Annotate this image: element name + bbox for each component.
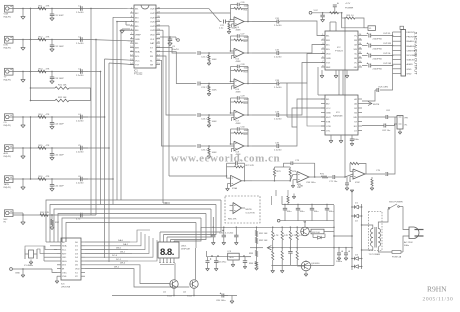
svg-text:C16 100P: C16 100P <box>54 186 64 188</box>
svg-text:5.1CH IN: 5.1CH IN <box>246 213 255 215</box>
svg-text:VCC: VCC <box>314 10 319 12</box>
svg-text:SR: SR <box>150 65 153 67</box>
svg-text:2005/11/30: 2005/11/30 <box>423 297 454 303</box>
svg-text:LO: LO <box>354 131 357 133</box>
svg-text:GD: GD <box>354 67 358 69</box>
svg-text:C202: C202 <box>228 233 234 235</box>
svg-text:VREF: VREF <box>135 35 141 37</box>
svg-text:SUB-W: SUB-W <box>407 60 415 62</box>
svg-text:C62 10u: C62 10u <box>382 130 391 132</box>
svg-text:VSS: VSS <box>62 276 67 278</box>
svg-text:OUT-SL: OUT-SL <box>383 53 392 55</box>
svg-text:OUT-FL: OUT-FL <box>383 33 392 35</box>
svg-text:IC8C: IC8C <box>355 182 360 184</box>
svg-text:DC-1: DC-1 <box>116 259 122 261</box>
svg-text:TAPE: TAPE <box>4 183 10 186</box>
svg-text:VDD: VDD <box>326 54 331 56</box>
svg-text:TST: TST <box>135 65 140 67</box>
svg-text:2.2u/50: 2.2u/50 <box>76 183 84 185</box>
svg-text:DIG: DIG <box>62 265 66 267</box>
svg-text:7805: 7805 <box>229 257 235 259</box>
svg-text:VC: VC <box>354 63 357 65</box>
svg-text:R9HN: R9HN <box>427 285 447 294</box>
svg-text:100u: 100u <box>329 211 335 213</box>
svg-text:DA-1: DA-1 <box>123 243 129 246</box>
svg-text:STB: STB <box>326 122 331 124</box>
svg-text:Q4 8050: Q4 8050 <box>311 263 320 265</box>
svg-text:IN(L/R): IN(L/R) <box>4 16 11 18</box>
svg-text:2.2u/50: 2.2u/50 <box>76 43 84 45</box>
svg-text:SDA: SDA <box>135 51 140 54</box>
svg-text:uPD6708: uPD6708 <box>61 287 71 289</box>
svg-text:C12 100P: C12 100P <box>54 46 64 48</box>
svg-text:4.7K: 4.7K <box>274 235 279 237</box>
svg-text:MU: MU <box>354 117 358 119</box>
svg-text:2.2u/50: 2.2u/50 <box>274 57 282 59</box>
svg-text:50Hz: 50Hz <box>404 245 409 247</box>
svg-text:R72 47K: R72 47K <box>246 165 255 167</box>
svg-text:2200P/50: 2200P/50 <box>373 39 383 41</box>
svg-text:GND: GND <box>326 58 331 60</box>
svg-text:2.2u/50: 2.2u/50 <box>76 75 84 77</box>
svg-text:SR: SR <box>354 58 357 60</box>
svg-text:IN(L/R): IN(L/R) <box>4 125 11 127</box>
svg-text:CE: CE <box>354 45 358 47</box>
svg-text:AUX: AUX <box>4 152 9 155</box>
svg-text:DA-0: DA-0 <box>118 239 124 242</box>
svg-text:OUT2: OUT2 <box>150 13 157 15</box>
svg-text:2200P/50: 2200P/50 <box>373 49 383 51</box>
svg-text:C15 100P: C15 100P <box>54 155 64 157</box>
svg-text:IN(L/R): IN(L/R) <box>4 187 11 189</box>
svg-text:OUT5: OUT5 <box>150 26 157 28</box>
svg-text:VDD: VDD <box>75 269 80 271</box>
svg-text:DAT: DAT <box>150 42 155 45</box>
svg-text:NJM2068: NJM2068 <box>333 116 343 118</box>
svg-text:GND: GND <box>407 73 412 75</box>
svg-text:IN(L/R): IN(L/R) <box>4 156 11 158</box>
svg-text:INR: INR <box>326 40 330 42</box>
svg-text:LED: LED <box>62 257 67 259</box>
svg-text:4558: 4558 <box>236 123 242 125</box>
svg-text:OUT3: OUT3 <box>150 17 157 19</box>
svg-text:2.2u/50: 2.2u/50 <box>76 12 84 14</box>
svg-text:4558: 4558 <box>236 91 242 93</box>
svg-text:RO: RO <box>354 126 358 128</box>
svg-text:47K: 47K <box>46 5 50 7</box>
svg-text:MUTE: MUTE <box>246 209 253 211</box>
svg-text:2.2u/50: 2.2u/50 <box>76 152 84 154</box>
svg-text:4.7K: 4.7K <box>284 235 289 237</box>
svg-text:OUT4: OUT4 <box>150 22 157 24</box>
svg-text:100u: 100u <box>300 211 306 213</box>
svg-text:100P: 100P <box>244 130 250 132</box>
svg-text:R21 10K: R21 10K <box>58 85 67 87</box>
svg-text:MUTE: MUTE <box>373 104 380 106</box>
svg-text:100u: 100u <box>354 139 360 141</box>
svg-text:100K: 100K <box>212 90 218 92</box>
svg-text:OUT-SR: OUT-SR <box>383 63 392 65</box>
svg-text:10K: 10K <box>297 187 301 189</box>
svg-text:PT2322: PT2322 <box>134 73 143 76</box>
svg-text:OUT1: OUT1 <box>150 9 157 11</box>
svg-text:R81 47K: R81 47K <box>228 219 237 221</box>
svg-text:DR-1: DR-1 <box>114 266 120 268</box>
svg-text:DISPLAY: DISPLAY <box>181 248 191 251</box>
svg-text:2.2u/50: 2.2u/50 <box>274 119 282 121</box>
svg-text:HR: HR <box>405 118 409 120</box>
svg-text:10u/16: 10u/16 <box>172 49 179 51</box>
svg-text:CLK: CLK <box>150 39 155 41</box>
svg-text:DB-1: DB-1 <box>120 251 126 253</box>
svg-text:GND: GND <box>135 39 140 41</box>
svg-text:INR: INR <box>135 47 139 49</box>
svg-text:www.eeworld.com.cn: www.eeworld.com.cn <box>171 153 280 165</box>
svg-text:GND: GND <box>326 113 331 115</box>
svg-text:DC-0: DC-0 <box>112 255 118 257</box>
svg-text:2200P/50: 2200P/50 <box>373 69 383 71</box>
svg-text:2200P/50: 2200P/50 <box>373 59 383 61</box>
svg-text:OUT-FR: OUT-FR <box>383 43 392 45</box>
svg-text:POWER: POWER <box>345 8 354 10</box>
svg-text:2.2u/50: 2.2u/50 <box>76 121 84 123</box>
svg-text:SW 100: SW 100 <box>312 232 321 234</box>
svg-text:OSC: OSC <box>62 272 67 274</box>
svg-text:C94 100u: C94 100u <box>306 182 316 184</box>
svg-text:C14 100P: C14 100P <box>54 124 64 126</box>
svg-text:R92 10K: R92 10K <box>259 240 268 242</box>
svg-text:100K: 100K <box>212 59 218 61</box>
svg-text:FR: FR <box>354 40 357 42</box>
svg-text:R91 10K: R91 10K <box>259 233 268 235</box>
svg-text:R22 10K: R22 10K <box>58 97 67 99</box>
svg-text:R51 10: R51 10 <box>347 15 355 17</box>
svg-text:2.2u/50: 2.2u/50 <box>274 87 282 89</box>
svg-text:2.2u/50: 2.2u/50 <box>274 150 282 152</box>
svg-text:VCC: VCC <box>326 108 331 110</box>
svg-text:47K: 47K <box>46 36 50 38</box>
svg-text:INC: INC <box>326 45 330 47</box>
svg-text:OUT6: OUT6 <box>150 30 157 32</box>
svg-text:47K: 47K <box>46 68 50 70</box>
svg-text:100K: 100K <box>212 121 218 123</box>
svg-text:100u: 100u <box>287 211 293 213</box>
svg-text:OUT-CEN: OUT-CEN <box>378 87 388 89</box>
svg-text:100P: 100P <box>244 6 250 8</box>
svg-text:8.8.: 8.8. <box>160 247 174 258</box>
svg-text:R94 1K: R94 1K <box>249 263 257 265</box>
svg-text:R31 2.2K: R31 2.2K <box>40 212 50 214</box>
svg-text:X1 4MHz: X1 4MHz <box>24 265 33 267</box>
svg-text:100P: 100P <box>244 37 250 39</box>
svg-text:REF: REF <box>326 67 331 69</box>
svg-text:LED1: LED1 <box>181 246 187 248</box>
svg-text:GND: GND <box>407 69 412 71</box>
svg-text:DR-0: DR-0 <box>120 263 126 265</box>
svg-text:47K: 47K <box>46 114 50 116</box>
svg-text:AGND: AGND <box>407 63 414 66</box>
svg-text:SEG: SEG <box>62 261 67 263</box>
svg-text:FR: FR <box>150 56 153 58</box>
svg-text:SW1 POWER: SW1 POWER <box>389 202 403 204</box>
svg-text:IN(L/R): IN(L/R) <box>4 79 11 81</box>
svg-text:47K: 47K <box>46 145 50 147</box>
svg-text:SDA: SDA <box>62 245 67 248</box>
svg-text:5.1CH AUDIO OUTPUT: 5.1CH AUDIO OUTPUT <box>414 32 419 75</box>
svg-text:100u: 100u <box>314 211 320 213</box>
svg-text:IC8A: IC8A <box>232 187 237 190</box>
svg-text:C71 10u: C71 10u <box>329 181 338 183</box>
svg-text:C85 100u: C85 100u <box>216 300 226 302</box>
svg-text:IN(L/R): IN(L/R) <box>4 47 11 49</box>
svg-text:+12V: +12V <box>345 3 351 5</box>
svg-text:4.7K: 4.7K <box>292 235 297 237</box>
svg-text:TST: TST <box>326 63 331 65</box>
svg-text:VDD: VDD <box>150 35 155 37</box>
svg-text:C11 100P: C11 100P <box>54 15 64 17</box>
svg-text:KEY: KEY <box>62 253 67 255</box>
svg-text:100P: 100P <box>244 68 250 70</box>
svg-text:PT2323: PT2323 <box>335 51 343 53</box>
svg-text:4558: 4558 <box>236 61 242 63</box>
svg-text:AC 220V: AC 220V <box>404 241 413 244</box>
svg-text:OTR: OTR <box>326 126 331 128</box>
svg-text:100P: 100P <box>244 99 250 101</box>
svg-text:MUT: MUT <box>326 117 331 119</box>
svg-text:1000u: 1000u <box>336 261 343 263</box>
svg-text:DB-0: DB-0 <box>116 248 122 250</box>
svg-text:2.2u/50: 2.2u/50 <box>274 25 282 27</box>
svg-text:4558: 4558 <box>236 29 242 31</box>
svg-text:GND: GND <box>15 273 20 275</box>
svg-text:47K: 47K <box>46 176 50 178</box>
svg-text:VCC: VCC <box>135 60 140 62</box>
svg-text:INS: INS <box>326 49 330 51</box>
svg-text:T1 POWER: T1 POWER <box>369 254 381 256</box>
svg-text:C13 100P: C13 100P <box>54 78 64 80</box>
svg-text:FUSE 2A: FUSE 2A <box>392 256 402 259</box>
